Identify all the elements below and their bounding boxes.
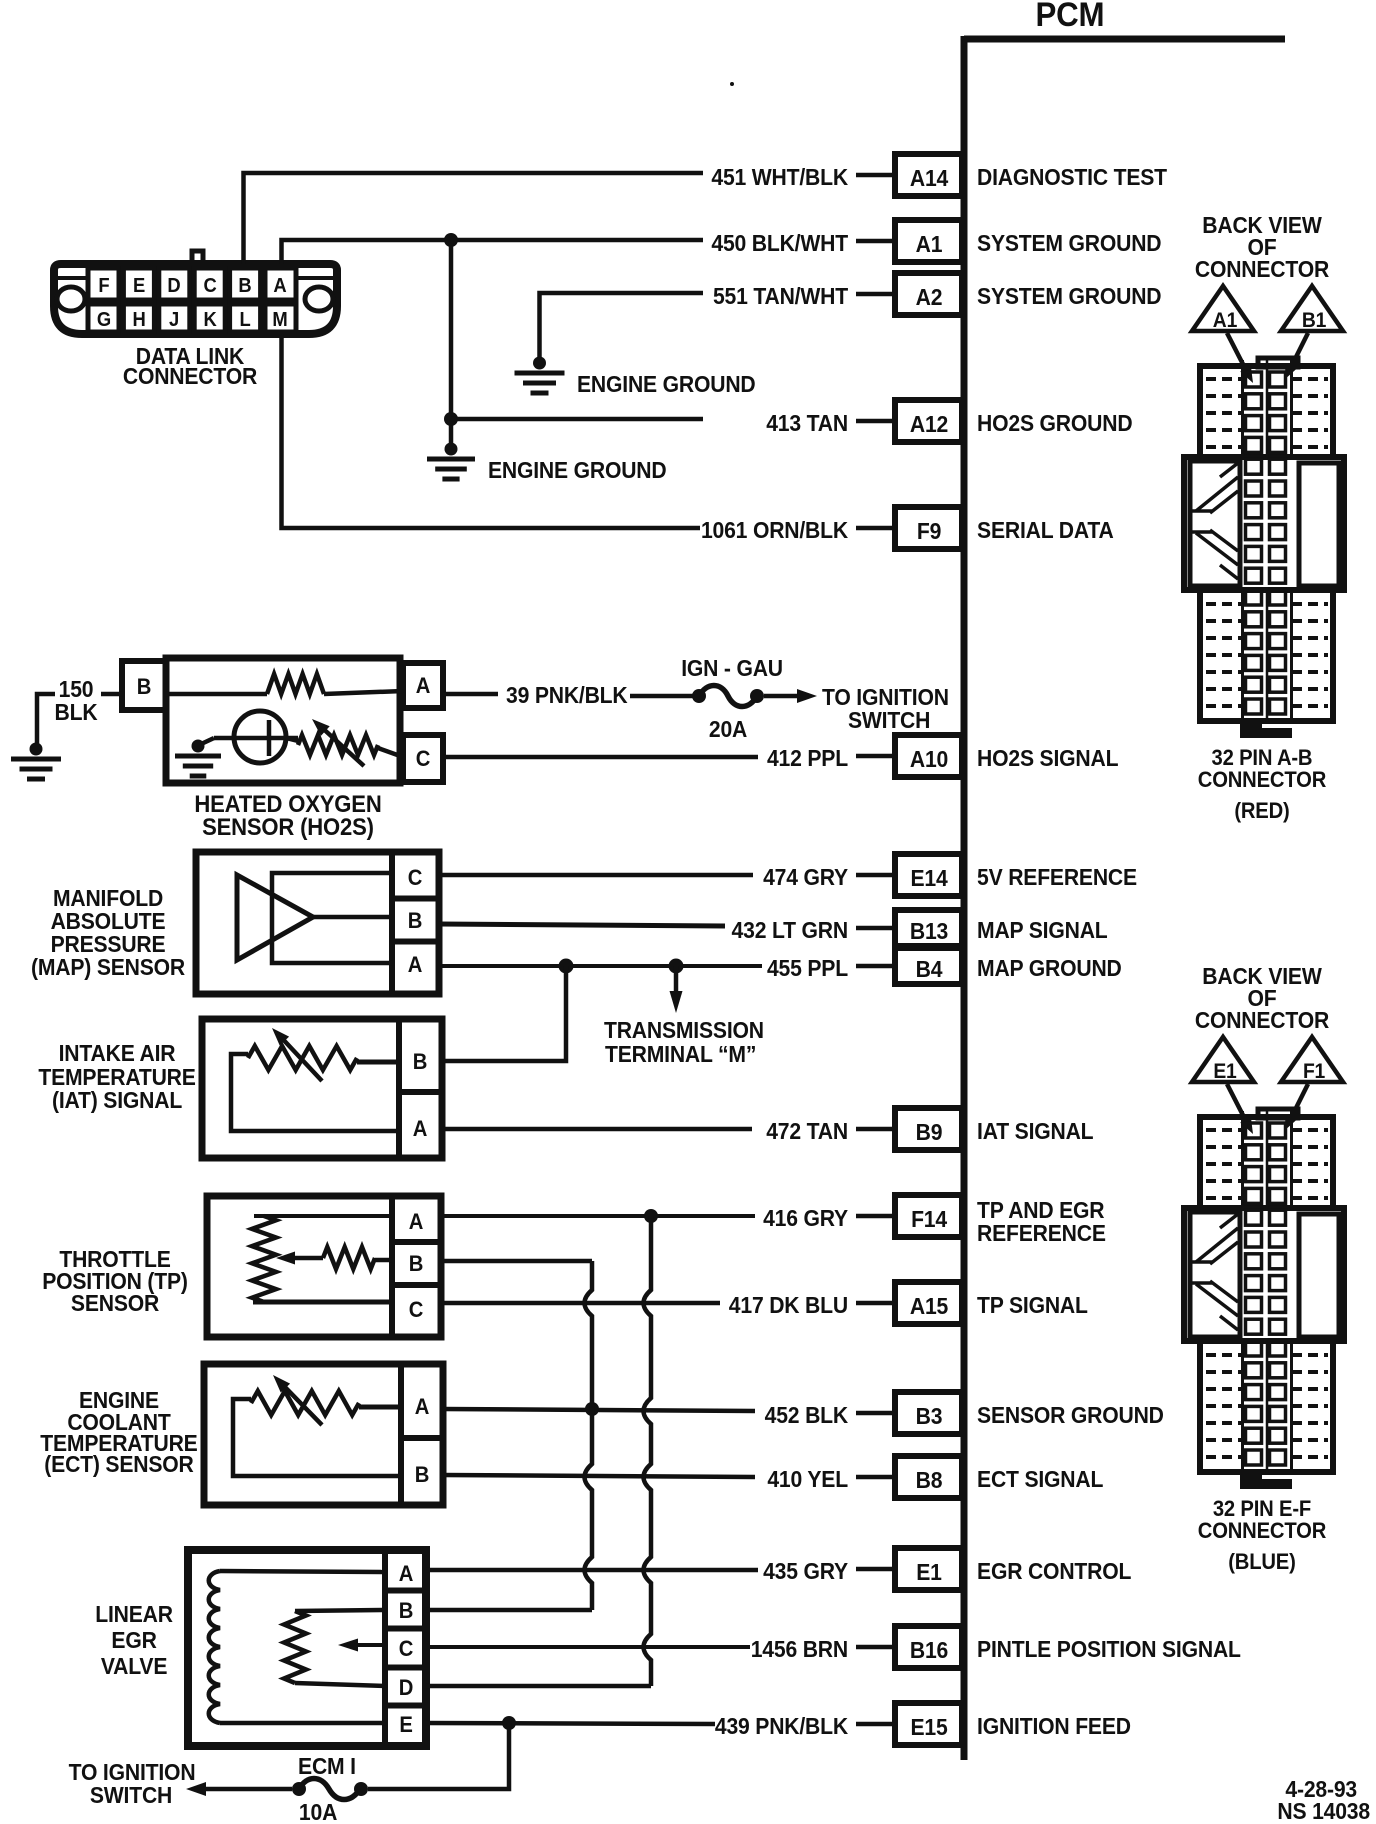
linear EGR valve [188, 1550, 426, 1746]
svg-text:416 GRY: 416 GRY [763, 1205, 848, 1231]
wire EGR B to TP wiper bus [426, 1608, 592, 1613]
wire 452 BLK ECT A to PCM B3 [443, 1409, 755, 1411]
wire 472 TAN IAT A to PCM B9 [442, 1127, 752, 1132]
svg-text:10A: 10A [299, 1799, 337, 1824]
svg-text:REFERENCE: REFERENCE [977, 1220, 1106, 1246]
svg-text:A: A [413, 1117, 427, 1141]
svg-text:H: H [132, 309, 145, 331]
potentiometer inside TP [254, 1214, 392, 1218]
svg-text:BLK: BLK [55, 699, 98, 725]
PCM pin A1 (SYSTEM GROUND) wire label 450 BLK/WHT [711, 220, 1161, 262]
data link connector DLC [54, 251, 337, 334]
svg-text:CONNECTOR: CONNECTOR [1198, 768, 1326, 792]
svg-text:455 PPL: 455 PPL [767, 955, 848, 981]
PCM pin B13 (MAP SIGNAL) wire label 432 LT GRN [732, 910, 1108, 946]
svg-text:D: D [399, 1676, 413, 1700]
svg-text:MAP GROUND: MAP GROUND [977, 955, 1122, 981]
svg-text:A15: A15 [910, 1293, 948, 1319]
svg-text:G: G [97, 309, 111, 331]
svg-text:(BLUE): (BLUE) [1228, 1550, 1295, 1574]
wire DLC pin M to PCM F9 (1061 ORN/BLK) [282, 334, 701, 528]
wire 1456 BRN EGR C to PCM B16 [426, 1645, 750, 1649]
wire 439 PNK/BLK EGR E to PCM E15 [426, 1723, 715, 1724]
svg-text:SENSOR GROUND: SENSOR GROUND [977, 1402, 1164, 1428]
pintle position pot inside EGR [284, 1611, 306, 1683]
svg-text:20A: 20A [709, 716, 747, 742]
svg-text:C: C [203, 275, 216, 297]
svg-text:450 BLK/WHT: 450 BLK/WHT [711, 230, 848, 256]
sensor cell (circle with plus) [234, 711, 286, 763]
svg-text:TERMINAL “M”: TERMINAL “M” [605, 1041, 756, 1067]
svg-text:MAP SIGNAL: MAP SIGNAL [977, 917, 1108, 943]
svg-text:ENGINE GROUND: ENGINE GROUND [488, 457, 667, 483]
svg-text:B: B [408, 909, 422, 933]
wire 474 GRY MAP C to PCM E14 [439, 873, 753, 878]
svg-text:E: E [399, 1713, 412, 1737]
engine ground (system ground bus) [427, 443, 475, 480]
wire 39 PNK/BLK from HO2S pin A [443, 692, 498, 697]
PCM pin A15 (TP SIGNAL) wire label 417 DK BLU [729, 1282, 1088, 1324]
junction node sensor ground bus [585, 1402, 599, 1416]
bus wire TP-B / sensor ground / EGR-B [585, 1261, 593, 1610]
svg-text:IGNITION FEED: IGNITION FEED [977, 1713, 1131, 1739]
internal wiring MAP [272, 873, 392, 963]
svg-text:ECM I: ECM I [298, 1753, 356, 1779]
svg-text:A: A [416, 674, 430, 698]
svg-text:B: B [238, 275, 251, 297]
svg-text:SWITCH: SWITCH [90, 1782, 172, 1808]
wire A2 (551 TAN/WHT) to engine ground [540, 293, 704, 363]
svg-text:K: K [203, 309, 216, 331]
svg-text:PCM: PCM [1035, 0, 1104, 33]
PCM module boundary [964, 36, 1285, 1760]
svg-text:B4: B4 [916, 956, 944, 982]
svg-text:B8: B8 [916, 1467, 943, 1493]
svg-text:1456 BRN: 1456 BRN [751, 1636, 848, 1662]
svg-text:SYSTEM GROUND: SYSTEM GROUND [977, 283, 1162, 309]
svg-text:451 WHT/BLK: 451 WHT/BLK [711, 164, 848, 190]
svg-text:435 GRY: 435 GRY [763, 1558, 848, 1584]
svg-text:A: A [409, 1210, 423, 1234]
svg-text:EGR: EGR [111, 1627, 156, 1653]
svg-text:A14: A14 [910, 165, 949, 191]
wire 455 PPL MAP A to PCM B4 [439, 964, 762, 968]
heated oxygen sensor HO2S [122, 658, 443, 783]
svg-text:L: L [239, 309, 250, 331]
svg-text:VALVE: VALVE [101, 1653, 167, 1679]
svg-text:F1: F1 [1303, 1060, 1325, 1083]
engine coolant temperature (ECT) sensor [204, 1364, 443, 1505]
svg-text:HO2S GROUND: HO2S GROUND [977, 410, 1133, 436]
svg-text:M: M [272, 309, 287, 331]
svg-text:A12: A12 [910, 411, 948, 437]
svg-text:SYSTEM GROUND: SYSTEM GROUND [977, 230, 1162, 256]
svg-text:A: A [399, 1562, 413, 1586]
svg-text:B: B [413, 1050, 427, 1074]
svg-text:HO2S SIGNAL: HO2S SIGNAL [977, 745, 1118, 771]
svg-text:C: C [399, 1637, 413, 1661]
PCM pin A14 (DIAGNOSTIC TEST) wire label 451 WHT/BLK [711, 154, 1167, 196]
svg-text:CONNECTOR: CONNECTOR [123, 363, 257, 389]
svg-text:(ECT) SENSOR: (ECT) SENSOR [44, 1451, 194, 1477]
wire IAT B up to 455 PPL junction [442, 966, 566, 1061]
manifold absolute pressure (MAP) sensor [196, 852, 439, 994]
svg-text:452 BLK: 452 BLK [765, 1402, 849, 1428]
branch wire down to ECM fuse [368, 1723, 509, 1789]
svg-text:(MAP) SENSOR: (MAP) SENSOR [31, 954, 185, 980]
svg-text:A10: A10 [910, 746, 948, 772]
wire to ignition switch (bottom) with arrow [205, 1787, 292, 1792]
svg-text:C: C [416, 747, 430, 771]
svg-text:PINTLE POSITION SIGNAL: PINTLE POSITION SIGNAL [977, 1636, 1241, 1662]
svg-text:D: D [167, 275, 180, 297]
wire DLC pin A to PCM A1 (450 BLK/WHT) [282, 240, 704, 264]
svg-text:CONNECTOR: CONNECTOR [1195, 1007, 1329, 1033]
svg-text:SENSOR: SENSOR [71, 1290, 159, 1316]
PCM pin A10 (HO2S SIGNAL) wire label 412 PPL [767, 735, 1118, 777]
svg-text:5V REFERENCE: 5V REFERENCE [977, 864, 1137, 890]
junction node on 450 BLK/WHT [444, 233, 458, 247]
svg-text:IGN - GAU: IGN - GAU [681, 655, 783, 681]
PCM pin E14 (5V REFERENCE) wire label 474 GRY [763, 854, 1137, 896]
svg-text:ENGINE GROUND: ENGINE GROUND [577, 371, 756, 397]
engine ground (551 TAN/WHT) [515, 357, 565, 394]
intake air temperature (IAT) sensor [202, 1019, 442, 1158]
wire EGR D to 416 GRY riser [426, 1684, 651, 1689]
thermistor inside ECT [233, 1399, 401, 1476]
svg-text:F9: F9 [917, 518, 941, 544]
svg-text:NS 14038: NS 14038 [1277, 1798, 1370, 1824]
op-amp triangle inside MAP [237, 875, 313, 960]
PCM pin B3 (SENSOR GROUND) wire label 452 BLK [765, 1392, 1164, 1434]
svg-text:IAT SIGNAL: IAT SIGNAL [977, 1118, 1093, 1144]
svg-text:E15: E15 [910, 1714, 947, 1740]
svg-text:F: F [98, 275, 109, 297]
svg-text:C: C [409, 1298, 423, 1322]
junction node 416 GRY to EGR riser [644, 1209, 658, 1223]
svg-text:A2: A2 [916, 284, 943, 310]
internal sensor ground [175, 740, 221, 777]
svg-text:32 PIN E-F: 32 PIN E-F [1213, 1497, 1311, 1521]
svg-text:551 TAN/WHT: 551 TAN/WHT [713, 283, 849, 309]
svg-text:439 PNK/BLK: 439 PNK/BLK [715, 1713, 848, 1739]
PCM pin A2 (SYSTEM GROUND) wire label 551 TAN/WHT [713, 273, 1162, 315]
PCM pin B9 (IAT SIGNAL) wire label 472 TAN [766, 1108, 1093, 1150]
PCM pin B4 (MAP GROUND) wire label 455 PPL [767, 948, 1122, 984]
throttle position (TP) sensor [207, 1196, 441, 1337]
svg-text:ECT SIGNAL: ECT SIGNAL [977, 1466, 1103, 1492]
heater resistor inside HO2S [166, 692, 267, 697]
svg-text:1061 ORN/BLK: 1061 ORN/BLK [701, 517, 848, 543]
svg-text:B1: B1 [1302, 309, 1326, 332]
svg-text:A: A [408, 953, 422, 977]
svg-text:B16: B16 [910, 1637, 948, 1663]
junction node ignition feed branch [502, 1716, 516, 1730]
PCM pin F9 (SERIAL DATA) wire label 1061 ORN/BLK [701, 507, 1114, 549]
svg-text:A1: A1 [916, 231, 943, 257]
bus wire 416 GRY reference to EGR-D [644, 1216, 652, 1686]
wire 413 TAN to PCM A12 [451, 417, 703, 422]
PCM pin E15 (IGNITION FEED) wire label 439 PNK/BLK [715, 1703, 1131, 1745]
svg-text:F14: F14 [911, 1206, 948, 1232]
wire TP B (wiper) to sensor-ground bus [441, 1259, 592, 1264]
svg-text:TRANSMISSION: TRANSMISSION [604, 1017, 764, 1043]
svg-text:SWITCH: SWITCH [848, 707, 930, 733]
svg-text:B: B [409, 1252, 423, 1276]
wire 435 GRY EGR A to PCM E1 [426, 1568, 758, 1573]
ground (150 BLK) [11, 743, 61, 780]
PCM pin B8 (ECT SIGNAL) wire label 410 YEL [767, 1456, 1103, 1498]
junction node to IAT riser [559, 959, 574, 974]
solenoid coil inside EGR [209, 1571, 220, 1723]
svg-text:CONNECTOR: CONNECTOR [1195, 256, 1329, 282]
svg-text:E1: E1 [1213, 1060, 1236, 1083]
svg-text:E: E [133, 275, 145, 297]
svg-text:412 PPL: 412 PPL [767, 745, 848, 771]
svg-text:B3: B3 [916, 1403, 943, 1429]
32-pin E-F connector (blue) back view [1184, 963, 1344, 1574]
svg-text:INTAKE AIR: INTAKE AIR [59, 1040, 176, 1066]
PCM pin F14 (TP AND EGR) wire label 416 GRY [763, 1195, 1106, 1246]
svg-text:39 PNK/BLK: 39 PNK/BLK [506, 682, 628, 708]
ground bus wire down from 450 junction [449, 240, 454, 449]
svg-text:472 TAN: 472 TAN [766, 1118, 848, 1144]
junction node to transmission branch [669, 959, 684, 974]
fuse ECM I 10A [354, 1782, 368, 1796]
TP wiper arrow and resistor [292, 1256, 323, 1261]
svg-text:B: B [137, 675, 151, 699]
svg-text:413 TAN: 413 TAN [766, 410, 848, 436]
svg-text:CONNECTOR: CONNECTOR [1198, 1519, 1326, 1543]
svg-text:410 YEL: 410 YEL [767, 1466, 848, 1492]
svg-text:SERIAL DATA: SERIAL DATA [977, 517, 1114, 543]
svg-text:SENSOR (HO2S): SENSOR (HO2S) [202, 813, 374, 840]
svg-text:(RED): (RED) [1234, 799, 1289, 823]
svg-text:B: B [399, 1599, 413, 1623]
svg-text:EGR CONTROL: EGR CONTROL [977, 1558, 1131, 1584]
stray speck [730, 82, 734, 86]
svg-text:DIAGNOSTIC TEST: DIAGNOSTIC TEST [977, 164, 1168, 190]
junction node 413 TAN tap [444, 412, 458, 426]
wire to ignition switch with arrow [764, 694, 798, 699]
wire 432 LT GRN MAP B to PCM B13 [439, 924, 725, 926]
branch arrow to transmission terminal M [674, 966, 679, 992]
PCM pin E1 (EGR CONTROL) wire label 435 GRY [763, 1548, 1131, 1590]
svg-text:32 PIN A-B: 32 PIN A-B [1212, 746, 1313, 770]
variable resistor (sensing element) [286, 738, 298, 741]
svg-text:B9: B9 [916, 1119, 943, 1145]
svg-text:417 DK BLU: 417 DK BLU [729, 1292, 848, 1318]
svg-text:A1: A1 [1213, 309, 1237, 332]
PCM pin A12 (HO2S GROUND) wire label 413 TAN [766, 400, 1132, 442]
wire 412 PPL from HO2S pin C to PCM A10 [443, 755, 758, 760]
wire 410 YEL ECT B to PCM B8 [443, 1475, 755, 1477]
svg-text:TP SIGNAL: TP SIGNAL [977, 1292, 1088, 1318]
svg-text:A: A [273, 275, 286, 297]
svg-text:E1: E1 [916, 1559, 941, 1585]
svg-text:432 LT GRN: 432 LT GRN [732, 917, 848, 943]
wire 416 GRY TP A to PCM F14 [441, 1214, 755, 1218]
svg-text:B13: B13 [910, 918, 948, 944]
pintle wiper arrow from pin C [352, 1643, 385, 1647]
fuse IGN-GAU 20A [692, 689, 706, 703]
svg-text:B: B [415, 1463, 429, 1487]
32-pin A-B connector (red) back view [1184, 212, 1344, 823]
wire 417 DK BLU TP C to PCM A15 [441, 1301, 720, 1306]
wire DLC pin B to PCM A14 (451 WHT/BLK) [244, 173, 704, 264]
svg-text:C: C [408, 866, 422, 890]
PCM pin B16 (PINTLE POSITION SIGNAL) wire label 1456 BRN [751, 1626, 1241, 1668]
wire 150 BLK from HO2S pin B to ground [101, 692, 122, 697]
svg-text:LINEAR: LINEAR [95, 1601, 173, 1627]
svg-text:A: A [415, 1395, 429, 1419]
svg-text:J: J [169, 309, 179, 331]
svg-text:(IAT) SIGNAL: (IAT) SIGNAL [52, 1087, 182, 1113]
svg-text:474 GRY: 474 GRY [763, 864, 848, 890]
thermistor inside IAT [231, 1054, 399, 1131]
svg-text:E14: E14 [910, 865, 948, 891]
